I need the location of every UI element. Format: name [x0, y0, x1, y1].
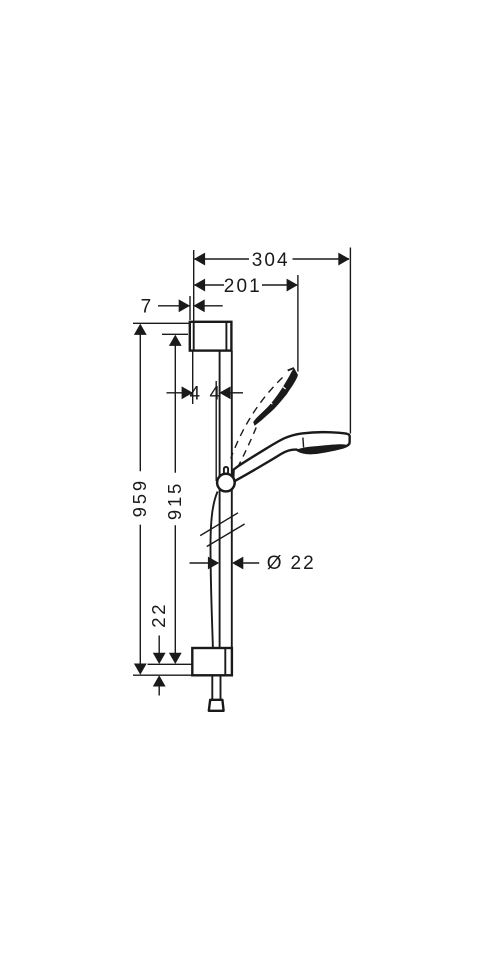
reference line bottom 959: [133, 674, 192, 676]
dimension 44 line: [167, 386, 244, 399]
dashed shower head cap: [288, 368, 298, 376]
hose: [210, 492, 217, 649]
dashed head face notch 2: [268, 400, 272, 404]
hose nut: [209, 700, 224, 711]
slider knob: [217, 474, 235, 492]
slider knob stem: [224, 467, 228, 475]
extension line 7 left: [189, 296, 191, 320]
svg-text:22: 22: [148, 602, 169, 628]
extension line 44 right / slider guide: [215, 381, 217, 481]
dimension 22 bottom line: [153, 636, 166, 696]
break mark lower: [207, 524, 245, 547]
dimension 7 line: [158, 299, 223, 312]
top wall bracket: [190, 322, 232, 351]
extension line 44 left: [192, 352, 194, 405]
solid shower head spray face: [297, 444, 347, 453]
dimension diameter 22 line: [190, 557, 260, 570]
rail left edge: [219, 351, 221, 648]
solid shower handle and head outline: [233, 432, 350, 482]
svg-text:4 4: 4 4: [189, 384, 222, 405]
dashed head face notch 1: [281, 385, 286, 389]
svg-text:Ø: Ø: [267, 553, 284, 574]
svg-text:959: 959: [129, 478, 150, 517]
hose outlet tube left: [211, 675, 213, 700]
solid shower head tick: [302, 438, 305, 448]
hose outlet tube right: [220, 675, 222, 700]
dimension 201 line: [194, 279, 298, 292]
bottom bracket inner right line: [224, 649, 226, 676]
dimension 959 line: [134, 324, 147, 675]
extension line right of 304: [349, 248, 351, 434]
svg-text:304: 304: [252, 250, 290, 271]
extension line left of 304/201: [193, 250, 195, 323]
dashed shower left outline: [231, 378, 283, 459]
top bracket inner right line: [225, 323, 227, 351]
reference line bottom 915: [148, 663, 193, 665]
bottom wall bracket: [192, 648, 232, 675]
dimension 915 line: [169, 335, 182, 664]
dashed shower head spray face: [253, 369, 297, 425]
extension line right of 201: [297, 275, 299, 372]
dimension 304 line: [194, 253, 350, 266]
svg-text:201: 201: [224, 276, 262, 297]
rail right edge: [231, 351, 233, 648]
reference line top 915: [162, 333, 188, 335]
svg-text:7: 7: [141, 297, 154, 318]
svg-text:22: 22: [291, 553, 316, 574]
svg-text:915: 915: [164, 481, 185, 520]
top bracket inner left line: [193, 323, 195, 351]
dashed shower right outline: [239, 428, 257, 466]
reference line top 959: [133, 322, 190, 324]
break mark upper: [200, 513, 238, 536]
